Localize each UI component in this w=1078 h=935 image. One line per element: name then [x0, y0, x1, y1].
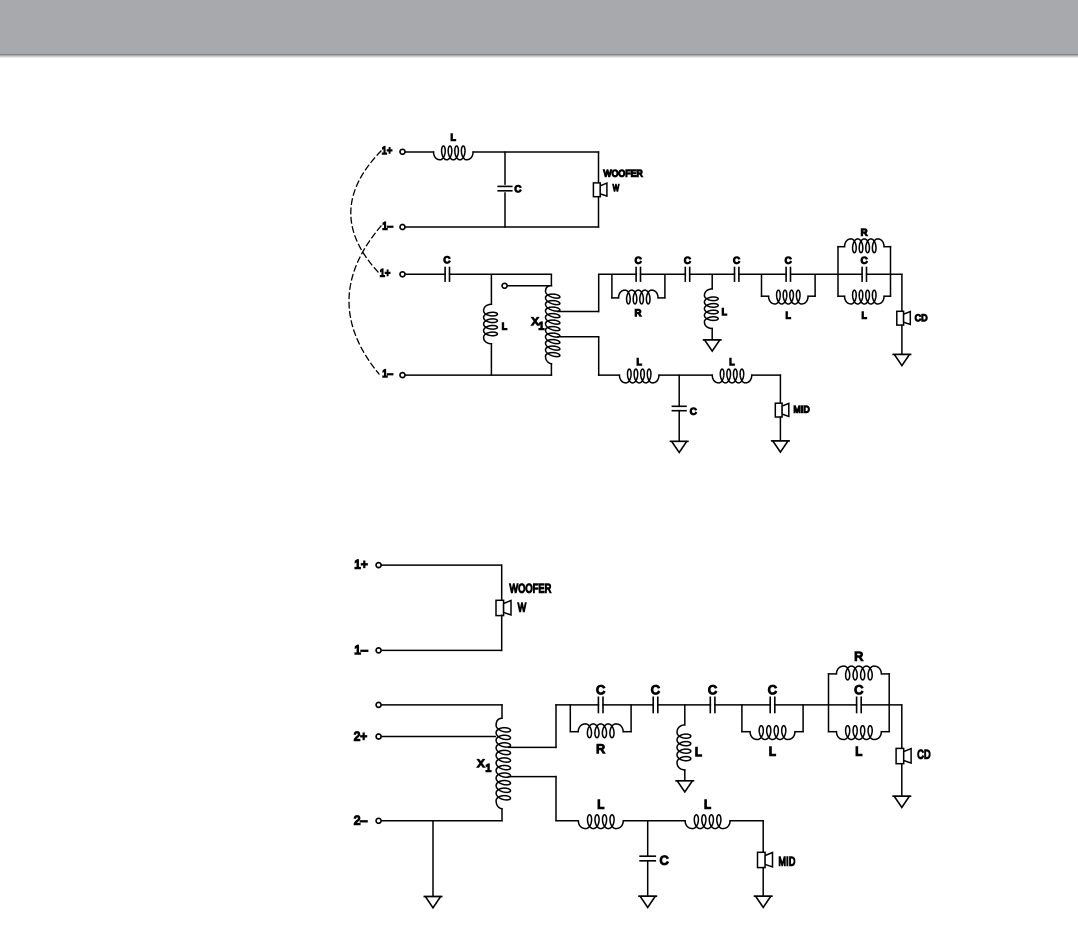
inductor L5 (RCL parallel) — [845, 290, 885, 320]
resistor R2 (RCL parallel) — [845, 227, 885, 253]
wire C12L9 right leg — [802, 705, 804, 732]
ground (CD speaker) — [893, 354, 910, 365]
capacitor C1 (woofer shunt) — [498, 183, 521, 194]
svg-text:C: C — [708, 683, 717, 697]
wire R1 right leg — [664, 274, 666, 298]
wire MID rail segment 3 — [752, 374, 781, 376]
svg-text:1+: 1+ — [380, 267, 391, 279]
wire CD rail segment 1 — [599, 273, 636, 275]
ground (2- terminal) — [424, 897, 441, 908]
wire tap to transformer — [508, 285, 552, 287]
svg-text:L: L — [502, 320, 508, 331]
wire CD rail segment 2 — [641, 273, 686, 275]
inductor L10 (RCL parallel) — [836, 726, 881, 759]
capacitor C7 (RCL parallel) — [861, 254, 868, 281]
wire CD rail b segment 1 — [556, 704, 599, 706]
svg-text:X: X — [477, 758, 484, 770]
capacitor C10 (series) — [651, 683, 660, 712]
svg-text:1+: 1+ — [354, 558, 367, 572]
terminal 1- (woofer return) — [382, 220, 405, 232]
loudspeaker MID (circuit 2) — [758, 852, 796, 868]
ground (CD shunt L3) — [704, 340, 721, 351]
capacitor C14 (MID shunt) — [640, 854, 669, 868]
wire CD rail b segment 5 — [775, 704, 857, 706]
inductor L3 (CD shunt) — [704, 289, 727, 329]
wire MID branch upper (c2) — [762, 821, 764, 853]
loudspeaker CD (circuit 2) — [896, 748, 931, 764]
svg-text:C: C — [651, 683, 660, 697]
svg-text:L: L — [695, 745, 702, 759]
wire RCL2 left leg — [828, 674, 830, 732]
wire secondary dropper to MID rail (c2) — [555, 777, 557, 821]
wire 1- to woofer — [382, 649, 502, 651]
wire MID branch lower (c2) — [762, 868, 764, 897]
resistor R4 (RCL parallel) — [836, 650, 881, 680]
capacitor C12 (parallel with L9) — [768, 683, 777, 712]
wire secondary lead lower — [558, 336, 599, 338]
loudspeaker WOOFER (circuit 1) — [593, 167, 643, 196]
inductor L4 (parallel with C6) — [769, 290, 809, 320]
svg-text:C: C — [635, 254, 642, 265]
wire R1 left leg — [611, 274, 613, 298]
wire RCL left stub bottom — [838, 295, 845, 297]
capacitor C9 (parallel with R3) — [596, 683, 605, 712]
wire woofer branch upper — [598, 152, 600, 183]
svg-text:2–: 2– — [354, 813, 367, 827]
wire aux terminal to transformer — [382, 704, 503, 706]
wire MID shunt C lower — [678, 411, 680, 442]
autotransformer X1 (circuit 1) — [532, 285, 560, 365]
wire MID rail b segment 2 — [623, 820, 685, 822]
wire CD rail segment 3 — [690, 273, 735, 275]
svg-text:C: C — [444, 254, 451, 265]
inductor L6 (MID series) — [619, 356, 659, 383]
svg-text:L: L — [597, 797, 604, 811]
svg-text:L: L — [769, 744, 776, 758]
wire MID rail segment 1 — [599, 374, 620, 376]
wire RCL left stub top — [838, 246, 845, 248]
wire CD rail segment 4 — [739, 273, 786, 275]
dashed pairing arc terminal 1+ to 1+ — [351, 151, 381, 273]
wire C6L4 right stub — [808, 295, 815, 297]
wire C12L9 right stub — [795, 731, 803, 733]
svg-text:C: C — [854, 683, 863, 697]
svg-text:C: C — [861, 254, 868, 265]
wire 1+ to woofer — [382, 564, 502, 566]
inductor L9 (parallel with C12) — [750, 726, 795, 759]
wire MID rail b segment 3 — [730, 820, 763, 822]
svg-text:W: W — [518, 600, 527, 614]
wire woofer branch upper (c2) — [501, 565, 503, 601]
inductor L1 (woofer series) — [434, 131, 474, 159]
wire C2 to transformer — [450, 273, 552, 275]
wire MID rail b segment 1 — [556, 820, 578, 822]
header gray bar — [0, 0, 1078, 58]
svg-text:W: W — [613, 182, 620, 193]
inductor L11 (MID series) — [578, 797, 623, 828]
terminal aux (circuit 2 top) — [376, 702, 381, 707]
svg-text:C: C — [515, 183, 522, 194]
svg-text:L: L — [451, 131, 457, 142]
wire RCL2 right stub bottom — [881, 731, 889, 733]
capacitor C6 (parallel with L4) — [785, 254, 792, 281]
wire cap C1 upper — [504, 152, 506, 184]
svg-text:1–: 1– — [382, 220, 393, 232]
svg-text:L: L — [636, 356, 642, 367]
wire 2- to transformer — [382, 820, 503, 822]
wire secondary dropper to MID rail — [598, 337, 600, 375]
wire C6L4 left leg — [761, 274, 763, 296]
terminal 1+ (circuit 2 woofer) — [354, 558, 381, 572]
wire R1 right stub — [658, 297, 665, 299]
ground (MID speaker c2) — [755, 896, 772, 907]
wire RCL2 left stub top — [829, 673, 837, 675]
wire secondary riser to CD rail (c2) — [555, 705, 557, 748]
inductor L8 (CD shunt) — [677, 725, 702, 770]
wire shunt L2 lower — [490, 344, 492, 375]
terminal 1- (crossover return) — [382, 368, 405, 380]
svg-text:2+: 2+ — [354, 729, 367, 743]
wire woofer branch lower (c2) — [501, 615, 503, 650]
wire 1+ to C2 — [406, 273, 445, 275]
loudspeaker MID (circuit 1) — [775, 403, 810, 417]
wire secondary lead lower (c2) — [509, 776, 557, 778]
loudspeaker CD (circuit 1) — [897, 311, 928, 325]
svg-text:R: R — [854, 650, 863, 664]
wire CD branch lower — [901, 325, 903, 354]
svg-text:1–: 1– — [382, 368, 393, 380]
wire shunt L3 upper — [711, 274, 713, 289]
wire RCL2 right leg — [888, 674, 890, 732]
wire MID rail segment 2 — [659, 374, 712, 376]
svg-text:C: C — [684, 254, 691, 265]
wire cap C1 lower — [504, 193, 506, 227]
wire MID shunt C lower (c2) — [647, 861, 649, 897]
wire RCL right stub top — [884, 246, 890, 248]
svg-text:C: C — [660, 854, 669, 868]
wire L1 to woofer branch — [473, 151, 598, 153]
capacitor C3 (parallel with R1) — [635, 254, 642, 281]
terminal 1- (circuit 2 woofer) — [354, 643, 381, 657]
wire shunt L8 lower — [684, 770, 686, 781]
svg-text:1+: 1+ — [382, 145, 393, 157]
svg-text:WOOFER: WOOFER — [510, 582, 552, 596]
svg-text:1: 1 — [538, 321, 544, 333]
wire MID shunt C upper — [678, 375, 680, 406]
wire R1 left stub — [612, 297, 619, 299]
svg-text:1–: 1– — [354, 643, 367, 657]
wire CD rail segment 5 — [791, 273, 862, 275]
svg-text:C: C — [785, 254, 792, 265]
svg-text:CD: CD — [915, 312, 928, 323]
terminal tap (autotransformer) — [502, 283, 507, 288]
svg-text:R: R — [596, 742, 605, 756]
svg-text:R: R — [635, 307, 642, 318]
wire CD rail b segment 2 — [603, 704, 653, 706]
inductor L12 (MID series) — [685, 797, 730, 828]
wire transformer bottom lead — [550, 364, 552, 375]
svg-text:R: R — [861, 227, 868, 238]
wire R3 right stub — [623, 731, 631, 733]
capacitor C13 (RCL parallel) — [854, 683, 863, 712]
capacitor C2 (series input) — [444, 254, 451, 281]
inductor L2 (input shunt) — [484, 304, 508, 344]
wire transformer top lead (c2) — [501, 705, 503, 718]
svg-text:L: L — [722, 306, 728, 317]
terminal 2+ (circuit 2) — [354, 729, 381, 743]
svg-text:L: L — [862, 309, 868, 320]
capacitor C8 (MID shunt) — [672, 406, 697, 417]
terminal 1+ (woofer input) — [382, 145, 405, 157]
wire RCL left leg — [837, 247, 839, 297]
wire MID shunt C upper (c2) — [647, 821, 649, 857]
svg-text:C: C — [768, 683, 777, 697]
wire RCL2 right stub top — [881, 673, 889, 675]
wire C12L9 left stub — [742, 731, 750, 733]
inductor L7 (MID series) — [712, 356, 752, 383]
svg-text:L: L — [855, 744, 862, 758]
resistor R1 (coil style) — [619, 290, 659, 318]
wire transformer top lead — [550, 274, 552, 286]
dashed pairing arc terminal 1- to 1- — [349, 226, 381, 374]
ground (MID shunt C8) — [671, 441, 688, 452]
wire CD branch lower (c2) — [901, 764, 903, 797]
capacitor C11 (series) — [708, 683, 717, 712]
wire 1+ to L1 — [406, 151, 434, 153]
wire R3 left stub — [570, 731, 578, 733]
resistor R3 (coil style) — [578, 724, 623, 756]
wire RCL2 left stub bottom — [829, 731, 837, 733]
wire C12L9 left leg — [741, 705, 743, 732]
wire 1- bottom rail (crossover) — [406, 374, 552, 376]
wire RCL right leg — [890, 247, 892, 297]
capacitor C4 (series) — [684, 254, 691, 281]
capacitor C5 (series) — [733, 254, 740, 281]
terminal 2- (circuit 2) — [354, 813, 381, 827]
wire CD rail b segment 6 — [861, 704, 902, 706]
wire R3 right leg — [630, 705, 632, 732]
wire shunt L8 upper — [684, 705, 686, 725]
svg-text:C: C — [596, 683, 605, 697]
ground (MID speaker) — [772, 441, 789, 452]
wire 1- bottom rail — [406, 226, 599, 228]
wire CD branch upper — [901, 274, 903, 311]
wire CD rail b segment 3 — [658, 704, 711, 706]
wire secondary riser to CD rail — [598, 274, 600, 311]
svg-text:L: L — [729, 356, 735, 367]
svg-text:L: L — [786, 309, 792, 320]
svg-text:L: L — [704, 797, 711, 811]
svg-text:C: C — [690, 406, 697, 417]
loudspeaker WOOFER (circuit 2) — [496, 582, 552, 616]
wire 2- ground drop — [432, 821, 434, 897]
wire CD rail b segment 4 — [715, 704, 771, 706]
ground (MID shunt C14) — [639, 896, 656, 907]
wire C6L4 left stub — [762, 295, 769, 297]
wire secondary lead upper (c2) — [509, 746, 557, 748]
terminal 1+ (crossover input) — [380, 267, 405, 279]
wire woofer branch lower — [598, 197, 600, 227]
svg-text:MID: MID — [779, 855, 796, 869]
wire 2+ to transformer tap — [382, 736, 496, 738]
svg-text:CD: CD — [917, 748, 931, 762]
svg-text:WOOFER: WOOFER — [604, 167, 644, 178]
wire CD branch upper (c2) — [901, 705, 903, 749]
svg-text:MID: MID — [794, 404, 811, 415]
wire R3 left leg — [569, 705, 571, 732]
wire transformer bottom lead (c2) — [501, 809, 503, 821]
wire MID branch lower — [779, 417, 781, 441]
svg-text:1: 1 — [485, 763, 491, 775]
wire MID branch upper — [779, 375, 781, 403]
ground (CD shunt L8) — [676, 781, 693, 792]
ground (CD speaker c2) — [893, 796, 910, 807]
wire CD rail segment 6 — [867, 273, 902, 275]
wire secondary lead upper — [558, 311, 599, 313]
autotransformer X1 (circuit 2) — [477, 718, 510, 810]
wire RCL right stub bottom — [884, 295, 890, 297]
wire shunt L3 lower — [711, 329, 713, 340]
wire shunt L2 upper — [490, 274, 492, 304]
svg-text:C: C — [733, 254, 740, 265]
wire C6L4 right leg — [814, 274, 816, 296]
